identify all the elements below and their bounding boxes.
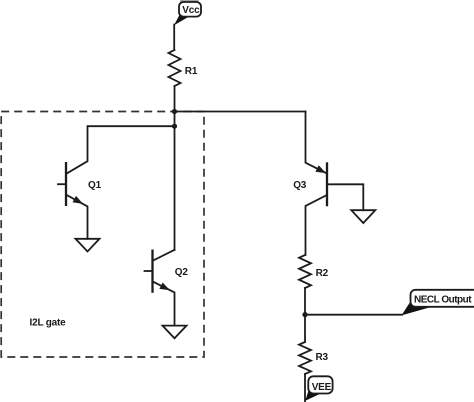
svg-text:Q2: Q2 [175, 267, 189, 278]
svg-text:Vcc: Vcc [182, 5, 200, 16]
svg-text:NECL Output: NECL Output [414, 295, 472, 306]
svg-text:Q3: Q3 [293, 180, 307, 191]
svg-text:R3: R3 [316, 352, 329, 363]
svg-text:I2L gate: I2L gate [30, 317, 67, 328]
svg-text:VEE: VEE [312, 382, 332, 393]
svg-text:Q1: Q1 [88, 180, 102, 191]
svg-text:R1: R1 [185, 66, 198, 77]
svg-text:R2: R2 [316, 268, 329, 279]
